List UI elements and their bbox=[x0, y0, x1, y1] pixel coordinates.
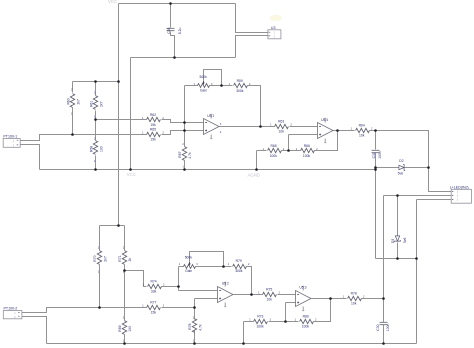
junction R70 bottom bbox=[98, 306, 101, 309]
svg-text:R58: R58 bbox=[89, 146, 93, 152]
junction R71 tap bbox=[123, 269, 126, 272]
svg-text:Gain: Gain bbox=[200, 89, 207, 93]
zener diode D3 5v6 bbox=[391, 236, 407, 243]
resistor R78 bbox=[348, 291, 362, 305]
wire PT100-1 pin2 bbox=[21, 145, 40, 170]
svg-text:PT100-1: PT100-1 bbox=[3, 135, 17, 139]
wire R61-R58 link bbox=[95, 111, 97, 141]
op-amp U5.3 bbox=[296, 286, 312, 312]
junction pot2 wiper tie bbox=[222, 265, 225, 268]
connector PT100-1 bbox=[3, 135, 20, 148]
resistor R69 bbox=[118, 321, 132, 335]
svg-text:R75: R75 bbox=[266, 287, 272, 291]
wire R68 left corner bbox=[257, 151, 267, 170]
svg-text:15k: 15k bbox=[150, 137, 156, 141]
junction pot1 wiper tie bbox=[220, 84, 223, 87]
wire y58 horizontal bbox=[131, 57, 236, 59]
wire R63 to U5.4 bbox=[290, 126, 318, 128]
wire top bus bbox=[119, 3, 236, 5]
wire R61 top lead bbox=[95, 82, 97, 96]
wire R64 to right bus bbox=[370, 131, 452, 192]
junction left bus bottom bbox=[117, 224, 120, 227]
wire pot2 right to R79 bbox=[196, 266, 232, 268]
junction y81 left bus bbox=[117, 80, 120, 83]
svg-text:AGND: AGND bbox=[248, 172, 260, 177]
junction bottom bus R76 bbox=[193, 342, 196, 345]
svg-text:U5.2: U5.2 bbox=[222, 282, 229, 286]
svg-text:2k7: 2k7 bbox=[100, 101, 104, 107]
wire PT100-2 pin2 bbox=[22, 317, 47, 344]
wire pot2 column to U5.2 bbox=[179, 267, 218, 291]
junction U5.3 output bbox=[329, 297, 332, 300]
resistor R80 bbox=[300, 315, 314, 329]
svg-text:U5.4: U5.4 bbox=[321, 118, 328, 122]
svg-text:100k: 100k bbox=[303, 154, 311, 158]
resistor R65 bbox=[147, 127, 161, 141]
connector U3 bbox=[268, 26, 281, 39]
junction R60 bottom bbox=[71, 133, 74, 136]
svg-text:R61: R61 bbox=[89, 101, 93, 107]
svg-text:C31: C31 bbox=[372, 152, 376, 158]
svg-text:R68: R68 bbox=[271, 144, 277, 148]
junction U5.4 output bbox=[336, 129, 339, 132]
wire conn pin3 column bbox=[417, 200, 452, 344]
svg-text:R73: R73 bbox=[257, 315, 263, 319]
svg-text:VCC: VCC bbox=[108, 0, 117, 4]
resistor R62 bbox=[147, 113, 161, 127]
wire R67 bottom lead bbox=[184, 161, 186, 170]
svg-text:R67: R67 bbox=[178, 151, 182, 157]
junction bottom bus C30 bbox=[382, 342, 385, 345]
wire pot2 left lead bbox=[179, 266, 184, 268]
capacitor C28 bbox=[167, 28, 182, 35]
svg-text:R79: R79 bbox=[236, 259, 242, 263]
junction U5.1 in- column bbox=[183, 129, 186, 132]
wire R75 to U5.3 bbox=[278, 294, 296, 296]
wire R62 to opamp jog bbox=[162, 120, 204, 123]
wire C28 bottom lead jog bbox=[171, 32, 175, 58]
wire C31 column bbox=[375, 131, 377, 259]
svg-text:2k: 2k bbox=[128, 258, 132, 262]
capacitor C31 bbox=[372, 150, 382, 159]
wire R60 bottom lead bbox=[72, 108, 74, 135]
svg-text:100: 100 bbox=[100, 146, 104, 152]
wire R68-R66 link bbox=[282, 150, 301, 152]
junction bottom bus R73 leg bbox=[242, 342, 245, 345]
svg-text:10k: 10k bbox=[351, 301, 357, 305]
highlight glow near U3 bbox=[270, 15, 282, 21]
wire U5.3 inv input bbox=[286, 303, 296, 322]
svg-text:100k: 100k bbox=[270, 154, 278, 158]
wire conn pin2 long bbox=[384, 195, 452, 197]
wire left vertical bus bbox=[118, 4, 120, 226]
wire U5.2 inv input bbox=[195, 299, 218, 308]
pin number marks bbox=[71, 83, 373, 343]
resistor R73 bbox=[254, 315, 268, 329]
svg-text:15k: 15k bbox=[150, 123, 156, 127]
svg-text:2k7: 2k7 bbox=[77, 99, 81, 105]
wire D3 leads bbox=[397, 196, 399, 259]
wire U5.3 feedback bbox=[314, 299, 331, 322]
wire pot left lead bbox=[185, 85, 198, 87]
wire PT100-2 pin1 bbox=[22, 308, 147, 313]
resistor R71 bbox=[118, 251, 132, 265]
junction R74 pot2 column bbox=[177, 285, 180, 288]
wire R78 to C30 column bbox=[362, 298, 384, 300]
wire mid bus right part bbox=[376, 167, 429, 169]
junction mid bus x130 bbox=[129, 168, 132, 171]
svg-text:R69: R69 bbox=[118, 325, 122, 331]
op-amp U5.1 bbox=[204, 114, 220, 140]
wire R77 to U5.2 bbox=[162, 307, 195, 309]
svg-text:R60: R60 bbox=[66, 98, 70, 104]
wire bus 258 bbox=[376, 258, 417, 260]
svg-text:10k: 10k bbox=[359, 134, 365, 138]
junction bus step lower bbox=[374, 168, 377, 171]
wire R73 left corner bbox=[244, 322, 254, 344]
svg-text:300k: 300k bbox=[235, 269, 243, 273]
wire U5.1 output bbox=[219, 126, 275, 128]
wire y81 feed bbox=[73, 81, 119, 83]
resistor R58 bbox=[89, 141, 103, 155]
svg-text:2k7: 2k7 bbox=[103, 256, 107, 262]
resistor R61 bbox=[89, 96, 103, 110]
wire R58 bottom lead bbox=[95, 156, 97, 170]
wire U3 pin1 from top bus bbox=[236, 4, 268, 33]
wire U3 pin2 bbox=[236, 36, 268, 58]
wire U5.4 output bbox=[333, 130, 355, 132]
svg-text:D3: D3 bbox=[391, 239, 395, 243]
junction R73-R80 node bbox=[284, 320, 287, 323]
junction R79 to output bbox=[250, 293, 253, 296]
svg-text:5v6: 5v6 bbox=[403, 237, 407, 243]
svg-text:R59: R59 bbox=[237, 79, 243, 83]
wire R71 tap to R74 bbox=[125, 271, 147, 287]
resistor R67 bbox=[178, 147, 192, 161]
resistor R59 bbox=[234, 79, 248, 93]
junction bus step upper bbox=[374, 166, 377, 169]
svg-text:U3: U3 bbox=[271, 26, 276, 30]
junction U5.1 in+ column bbox=[183, 121, 186, 124]
junction y81 R61 bbox=[94, 80, 97, 83]
wire R59 to output bbox=[248, 86, 261, 127]
svg-text:500k: 500k bbox=[185, 255, 193, 259]
wire U5.3 output bbox=[312, 298, 347, 300]
junction top bus C28 bbox=[169, 2, 172, 5]
svg-text:L+LED(INJ): L+LED(INJ) bbox=[450, 186, 469, 190]
resistor R63 bbox=[275, 120, 289, 134]
svg-text:U5.3: U5.3 bbox=[299, 286, 306, 290]
svg-text:R71: R71 bbox=[118, 255, 122, 261]
wire pot2 wiper loop bbox=[190, 252, 224, 267]
junction R59 to output bbox=[259, 125, 262, 128]
svg-text:300k: 300k bbox=[236, 89, 244, 93]
svg-text:15k: 15k bbox=[151, 311, 157, 315]
svg-text:R78: R78 bbox=[351, 291, 357, 295]
connector L+LED(INJ) bbox=[450, 186, 472, 204]
svg-text:10k: 10k bbox=[279, 130, 285, 134]
resistor R70 bbox=[93, 251, 107, 265]
zener diode D2 5v6 bbox=[398, 159, 406, 176]
wire mid bus bbox=[40, 169, 376, 171]
wire U5.2 output bbox=[234, 294, 263, 296]
wire C30 column bbox=[383, 196, 385, 344]
junction 258 bus right bbox=[415, 257, 418, 260]
svg-text:R64: R64 bbox=[359, 124, 365, 128]
svg-text:R80: R80 bbox=[303, 315, 309, 319]
svg-text:R62: R62 bbox=[150, 113, 156, 117]
svg-text:R74: R74 bbox=[151, 280, 157, 284]
wire R70 R71 top link bbox=[100, 225, 125, 227]
svg-text:4.7k: 4.7k bbox=[198, 324, 202, 331]
svg-text:5v6: 5v6 bbox=[398, 171, 404, 175]
potentiometer 500k Gain bbox=[198, 75, 210, 93]
wire PT100-1 pin1 bbox=[21, 135, 147, 141]
svg-text:100n: 100n bbox=[378, 151, 382, 159]
resistor R76 bbox=[188, 319, 202, 333]
wire pot column down to R67 bbox=[184, 86, 186, 147]
svg-text:R77: R77 bbox=[150, 301, 156, 305]
svg-text:100: 100 bbox=[128, 326, 132, 332]
svg-text:33k: 33k bbox=[151, 290, 157, 294]
wire U5.4 inv input bbox=[289, 135, 318, 151]
wire pot right to R59 bbox=[210, 85, 233, 87]
wire R76 leads bbox=[194, 308, 196, 344]
wire x130 vertical bbox=[130, 58, 132, 170]
svg-text:C30: C30 bbox=[376, 324, 380, 330]
resistor R64 bbox=[356, 124, 370, 138]
svg-text:R76: R76 bbox=[188, 323, 192, 329]
resistor R79 bbox=[233, 259, 247, 273]
svg-text:U5.1: U5.1 bbox=[207, 114, 214, 118]
potentiometer2 500k Gain bbox=[184, 255, 196, 273]
resistor R68 bbox=[268, 144, 282, 158]
junction R78 output node bbox=[382, 297, 385, 300]
svg-text:8.2u: 8.2u bbox=[178, 28, 182, 35]
wire R60 top lead bbox=[72, 82, 74, 93]
wire R65 to opamp jog bbox=[162, 131, 204, 135]
svg-text:4.7k: 4.7k bbox=[188, 152, 192, 159]
wire R61 tap to R62 bbox=[96, 119, 147, 121]
svg-text:VCC: VCC bbox=[127, 172, 136, 177]
resistor R75 bbox=[263, 287, 277, 301]
svg-text:PT100-2: PT100-2 bbox=[4, 307, 18, 311]
svg-text:Gain: Gain bbox=[185, 269, 192, 273]
junction D3 top bbox=[396, 194, 399, 197]
svg-text:R63: R63 bbox=[278, 120, 284, 124]
junction R64 output C31 bbox=[374, 129, 377, 132]
resistor R77 bbox=[147, 301, 161, 315]
junction bottom bus R69 bbox=[123, 342, 126, 345]
wire C28 top lead bbox=[170, 4, 172, 28]
junction mid bus R58 bbox=[94, 168, 97, 171]
resistor R60 bbox=[66, 94, 80, 108]
wire R74 to pot column bbox=[162, 286, 179, 288]
svg-text:D2: D2 bbox=[399, 159, 403, 163]
capacitor C30 bbox=[376, 322, 390, 331]
svg-text:100k: 100k bbox=[302, 325, 310, 329]
wire bottom bus bbox=[47, 343, 417, 345]
junction mid bus R68 leg bbox=[255, 168, 258, 171]
svg-text:R65: R65 bbox=[150, 127, 156, 131]
op-amp U5.2 bbox=[218, 282, 234, 308]
junction R77 R76 node bbox=[193, 306, 196, 309]
svg-text:100n: 100n bbox=[386, 324, 390, 332]
resistor R74 bbox=[148, 280, 162, 294]
svg-text:10k: 10k bbox=[267, 297, 273, 301]
junction R61 tap bbox=[94, 118, 97, 121]
op-amp U5.4 bbox=[318, 118, 334, 144]
svg-text:R66: R66 bbox=[304, 144, 310, 148]
connector PT100-2 bbox=[3, 307, 22, 320]
wire pot wiper feedback loop bbox=[204, 70, 222, 86]
svg-text:R70: R70 bbox=[93, 255, 97, 261]
wire R79 to output bbox=[247, 267, 252, 295]
svg-text:C28: C28 bbox=[167, 28, 171, 34]
svg-text:100k: 100k bbox=[256, 325, 264, 329]
wire R73-R80 link bbox=[269, 321, 299, 323]
wire R70 leads bbox=[99, 226, 101, 308]
svg-text:500k: 500k bbox=[200, 75, 208, 79]
junction mid bus R67 bbox=[183, 168, 186, 171]
junction R68-R66 node bbox=[287, 149, 290, 152]
junction y58 C28 bbox=[173, 56, 176, 59]
junction D3 bottom bbox=[396, 257, 399, 260]
wire U5.4 feedback bbox=[315, 131, 338, 151]
wire R71 leads bbox=[124, 226, 126, 344]
junction right bus D2 bbox=[427, 166, 430, 169]
resistor R66 bbox=[301, 144, 315, 158]
